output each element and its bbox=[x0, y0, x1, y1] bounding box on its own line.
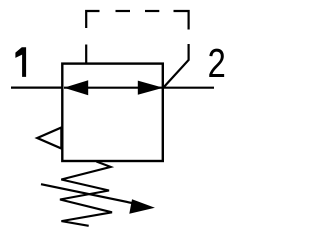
pilot line left riser dash bbox=[85, 45, 87, 64]
regulator body box bbox=[62, 64, 163, 161]
pilot line top dash a bbox=[116, 10, 131, 12]
port 2 label bbox=[209, 49, 224, 77]
flow path arrowhead left bbox=[64, 80, 88, 95]
wire port 1 line bbox=[11, 86, 63, 88]
relief vent triangle bbox=[37, 128, 61, 149]
port 1 label bbox=[15, 47, 26, 77]
flow path arrowhead right bbox=[138, 81, 163, 95]
flow path shaft bbox=[64, 87, 163, 89]
wire port 2 line bbox=[163, 87, 214, 89]
pilot line right corner bbox=[174, 11, 189, 30]
pilot line right riser and diagonal to port 2 junction bbox=[163, 44, 188, 88]
adjustment arrowhead bbox=[129, 199, 155, 214]
adjustment arrow shaft bbox=[41, 184, 146, 206]
pilot line left corner bbox=[86, 11, 99, 28]
spring bbox=[60, 162, 112, 226]
pilot line top dash b bbox=[145, 10, 159, 12]
